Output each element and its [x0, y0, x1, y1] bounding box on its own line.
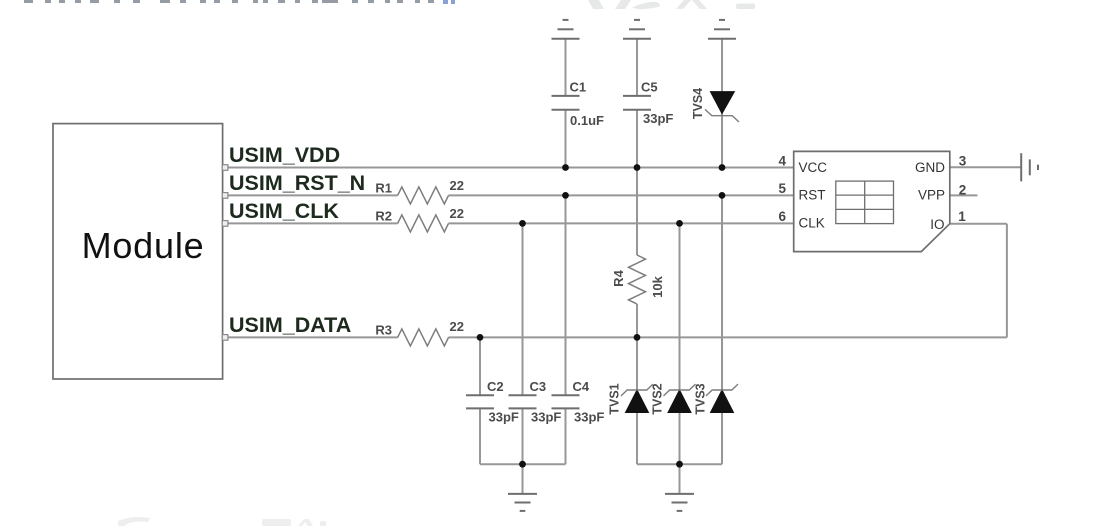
- svg-text:6: 6: [778, 209, 786, 224]
- inverted ground above C5: [623, 20, 651, 39]
- svg-text:VPP: VPP: [918, 188, 945, 203]
- node C3/CLK: [519, 220, 526, 227]
- svg-text:Module: Module: [82, 225, 205, 266]
- svg-text:3: 3: [959, 153, 967, 168]
- wire R4 top: [636, 168, 638, 256]
- svg-text:TVS4: TVS4: [691, 88, 705, 119]
- wire TVS ground bus: [637, 463, 722, 465]
- wire USIM_CLK left of R2: [225, 222, 398, 224]
- wire cap ground stem: [522, 464, 524, 494]
- capacitor C4: [552, 395, 580, 408]
- svg-text:USIM_RST_N: USIM_RST_N: [229, 171, 365, 195]
- svg-text:R3: R3: [375, 323, 392, 338]
- resistor R1: [375, 178, 464, 204]
- node C4/RST: [562, 192, 569, 199]
- capacitor C1: [552, 96, 580, 110]
- ground below TVS diodes: [665, 494, 694, 511]
- svg-text:TVS2: TVS2: [651, 383, 665, 414]
- wire VPP stub: [950, 194, 978, 196]
- wire TVS1 top: [636, 337, 638, 390]
- ground below capacitors: [508, 494, 537, 511]
- wire C5 top: [636, 39, 638, 96]
- wire USIM_DATA right of R3 to IO riser: [449, 336, 1007, 338]
- svg-text:R1: R1: [375, 181, 392, 196]
- svg-text:R2: R2: [375, 209, 392, 224]
- wire TVS3 bottom: [721, 413, 723, 465]
- wire C3 bottom: [522, 408, 524, 464]
- svg-text:CLK: CLK: [799, 216, 825, 231]
- svg-text:TVS1: TVS1: [608, 383, 622, 414]
- capacitor C2: [466, 395, 494, 408]
- svg-text:10k: 10k: [650, 275, 665, 297]
- svg-text:C5: C5: [641, 80, 658, 95]
- wire CLK to C3: [522, 223, 524, 395]
- SIM contact pad grid: [836, 181, 894, 224]
- svg-text:2: 2: [959, 183, 967, 198]
- watermark fragment bottom-left: [118, 517, 326, 526]
- wire USIM_CLK right of R2: [449, 222, 794, 224]
- cropped text line at very top (glyph bottoms only): [24, 0, 455, 4]
- svg-text:33pF: 33pF: [643, 111, 673, 126]
- node C2/DATA: [477, 334, 484, 341]
- svg-text:VCC: VCC: [799, 160, 828, 175]
- capacitor C5: [623, 96, 651, 110]
- TVS diode TVS2: [651, 383, 696, 414]
- pin square USIM_DATA: [222, 335, 228, 341]
- wire C5 bottom: [636, 110, 638, 168]
- svg-text:IO: IO: [930, 217, 944, 232]
- wire C1 top: [565, 39, 567, 96]
- node C1/VDD: [562, 164, 569, 171]
- svg-text:GND: GND: [915, 160, 945, 175]
- svg-text:22: 22: [450, 178, 464, 193]
- svg-text:TVS3: TVS3: [694, 383, 708, 414]
- svg-text:C2: C2: [487, 379, 504, 394]
- svg-text:5: 5: [778, 181, 786, 196]
- TVS diode TVS1: [608, 383, 654, 414]
- node TVS2/CLK: [676, 220, 683, 227]
- wire IO riser vertical: [1006, 224, 1008, 338]
- pin square USIM_RST_N: [222, 193, 228, 199]
- wire GND pin to ground: [950, 166, 1021, 168]
- svg-text:R4: R4: [611, 269, 626, 286]
- resistor R2: [375, 206, 464, 232]
- svg-text:22: 22: [450, 319, 464, 334]
- svg-text:C3: C3: [530, 379, 547, 394]
- wire TVS2 top: [679, 223, 681, 390]
- wire DATA to C2: [479, 337, 481, 395]
- svg-text:1: 1: [958, 209, 966, 224]
- svg-text:USIM_CLK: USIM_CLK: [229, 199, 339, 223]
- svg-text:C1: C1: [570, 80, 587, 95]
- pin square USIM_CLK: [222, 221, 228, 227]
- TVS diode TVS3: [694, 383, 739, 414]
- node R4/TVS1/DATA: [634, 334, 641, 341]
- node TVS ground bus: [676, 461, 683, 468]
- SIM holder U2 (box with bevel): [778, 151, 966, 251]
- wire TVS2 bottom: [679, 413, 681, 465]
- svg-text:0.1uF: 0.1uF: [570, 113, 604, 128]
- TVS diode TVS4: [691, 88, 739, 122]
- node C5/R4/VDD: [634, 164, 641, 171]
- wire USIM_RST_N right of R1: [449, 194, 794, 196]
- watermark fragment top: [588, 0, 755, 9]
- ground at GND pin (rotated): [1021, 153, 1038, 181]
- wire IO pin horizontal: [950, 223, 1007, 225]
- resistor R4: [611, 255, 665, 304]
- capacitor C3: [509, 395, 537, 408]
- node TVS3/RST: [719, 192, 726, 199]
- svg-text:4: 4: [778, 153, 786, 168]
- wire C4 bottom: [565, 408, 567, 464]
- svg-text:C4: C4: [573, 379, 590, 394]
- junction dots: [477, 164, 726, 468]
- wire TVS3 top: [721, 195, 723, 390]
- module U (box): [53, 124, 223, 379]
- svg-text:USIM_VDD: USIM_VDD: [229, 143, 340, 167]
- wire R4 bottom: [636, 304, 638, 337]
- pin square USIM_VDD: [222, 165, 228, 171]
- wire USIM_RST_N left of R1: [225, 194, 398, 196]
- node TVS4/VDD: [719, 164, 726, 171]
- wire C2 bottom: [479, 408, 481, 464]
- wire C1 bottom: [565, 110, 567, 168]
- svg-text:33pF: 33pF: [489, 410, 519, 425]
- inverted ground above C1: [552, 20, 580, 39]
- wire USIM_VDD net: [225, 167, 794, 169]
- node cap ground bus: [519, 461, 526, 468]
- svg-text:RST: RST: [799, 188, 826, 203]
- svg-text:USIM_DATA: USIM_DATA: [229, 313, 351, 337]
- wire USIM_DATA left of R3: [225, 336, 398, 338]
- wire TVS1 bottom: [636, 413, 638, 465]
- resistor R3: [375, 319, 464, 346]
- inverted ground above TVS4: [708, 20, 736, 39]
- wire RST to C4: [565, 195, 567, 395]
- svg-text:33pF: 33pF: [574, 410, 604, 425]
- wire TVS4 bottom: [721, 114, 723, 168]
- wire TVS ground stem: [679, 464, 681, 494]
- wire capacitor ground bus: [480, 463, 566, 465]
- svg-text:33pF: 33pF: [531, 410, 561, 425]
- wire TVS4 top: [721, 39, 723, 92]
- svg-text:22: 22: [450, 206, 464, 221]
